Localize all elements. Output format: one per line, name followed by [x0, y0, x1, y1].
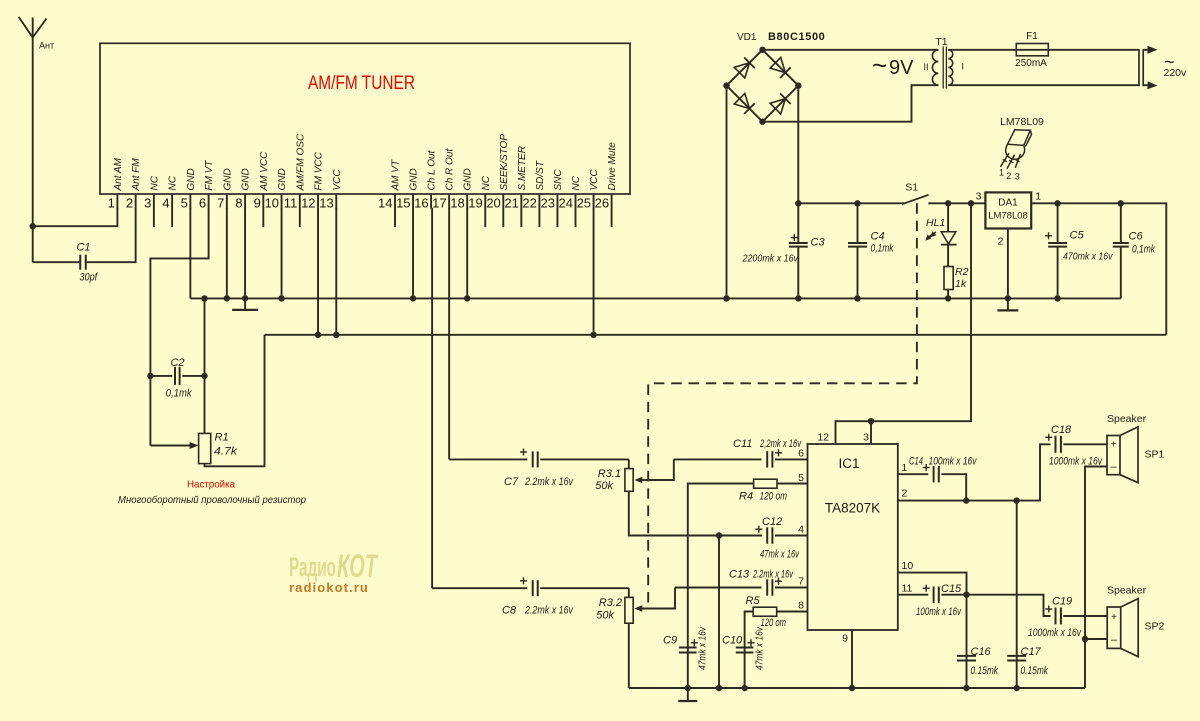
tuner pin 16 (Ch L Out) — [414, 149, 437, 210]
tuner block AM/FM TUNER — [100, 43, 630, 194]
svg-text:10: 10 — [902, 560, 914, 572]
junction R1 top col/gnd bus — [201, 295, 207, 301]
wire pin10 jog — [898, 573, 967, 595]
svg-text:R2: R2 — [955, 266, 969, 278]
junction pin13/vcc — [333, 332, 339, 338]
svg-text:IC1: IC1 — [838, 456, 859, 471]
svg-text:+: + — [1111, 612, 1117, 623]
svg-text:+: + — [1111, 440, 1117, 451]
svg-text:10: 10 — [265, 196, 279, 211]
svg-text:HL1: HL1 — [926, 217, 945, 229]
svg-text:FM VT: FM VT — [204, 160, 215, 191]
junction C3/gnd bus — [795, 295, 801, 301]
capacitor C9 47mk — [663, 626, 709, 688]
svg-text:0.15mk: 0.15mk — [1021, 665, 1049, 677]
svg-text:C13: C13 — [729, 569, 750, 581]
wire C7 to R3.1 top — [628, 459, 630, 468]
svg-text:19: 19 — [468, 196, 482, 211]
svg-text:50k: 50k — [596, 610, 614, 622]
junction pin12/vcc — [315, 332, 321, 338]
svg-text:6: 6 — [199, 196, 206, 211]
tuner pin 21 (S.METER) — [504, 146, 527, 227]
svg-text:S.METER: S.METER — [517, 146, 528, 190]
junction C17/gnd — [1014, 685, 1020, 691]
ground under pin8 — [232, 298, 258, 310]
capacitor C11 2,2mk — [733, 438, 808, 468]
svg-text:КОТ: КОТ — [337, 548, 379, 584]
svg-text:0,1mk: 0,1mk — [1132, 244, 1155, 256]
switch S1 — [902, 181, 948, 204]
svg-text:2: 2 — [1006, 171, 1011, 181]
svg-text:250mA: 250mA — [1015, 58, 1047, 69]
svg-text:1000mk x 16v: 1000mk x 16v — [1028, 627, 1082, 639]
svg-text:LM78L08: LM78L08 — [988, 211, 1028, 222]
svg-text:Ch R Out: Ch R Out — [445, 148, 456, 191]
svg-text:100mk x 16v: 100mk x 16v — [929, 456, 978, 468]
svg-text:Ch L Out: Ch L Out — [427, 149, 438, 190]
wire SP2 minus — [1085, 638, 1107, 640]
svg-text:4: 4 — [798, 524, 804, 536]
wire pin5 GND to bus — [189, 208, 191, 298]
resistor R4 120om — [688, 479, 808, 643]
tuner pin 3 (NC) — [144, 175, 160, 227]
capacitor C13 2.2mk — [729, 569, 808, 596]
junction pin7/gnd — [224, 295, 230, 301]
wire pin15 GND — [412, 208, 414, 298]
svg-text:C19: C19 — [1052, 596, 1072, 608]
junction C9/gnd — [685, 685, 691, 691]
wire wiper2 to C13 — [675, 587, 762, 589]
junction bridge minus/gnd bus — [723, 295, 729, 301]
svg-text:3: 3 — [144, 196, 151, 211]
label IC1 pin12 — [817, 432, 829, 444]
svg-text:2.2mk x 16v: 2.2mk x 16v — [524, 605, 574, 617]
junction C12 node — [716, 532, 722, 538]
wire HL1 to R2 — [947, 245, 949, 267]
svg-text:VCC: VCC — [332, 169, 343, 191]
svg-text:3: 3 — [863, 432, 869, 444]
svg-text:C8: C8 — [502, 605, 517, 617]
label IC1 pin7 — [798, 576, 804, 588]
potentiometer R3.1 50k — [595, 459, 674, 492]
resistor R1 4.7k — [150, 432, 237, 464]
tuner pin 26 (Drive Mute) — [595, 142, 618, 227]
svg-text:C3: C3 — [811, 237, 826, 249]
junction pin3 lead — [868, 418, 874, 424]
tuner pin 15 (GND) — [396, 168, 419, 210]
svg-text:50k: 50k — [595, 480, 613, 492]
svg-text:B80C1500: B80C1500 — [768, 31, 825, 43]
resistor R2 1k — [944, 266, 969, 290]
label winding II — [923, 62, 928, 72]
transformer T1 — [932, 47, 952, 89]
wire R1 bottom to +9V bus — [205, 335, 265, 467]
tuner pin 22 (SD/ST) — [522, 160, 545, 227]
svg-text:C15: C15 — [941, 583, 962, 595]
svg-text:17: 17 — [432, 196, 446, 211]
svg-text:DA1: DA1 — [998, 198, 1018, 209]
wire pin16 to C8 — [432, 587, 527, 589]
svg-text:T1: T1 — [935, 36, 947, 48]
tuner pin 23 (SNC) — [540, 169, 563, 227]
junction pin9/gnd — [849, 685, 855, 691]
svg-text:22: 22 — [522, 196, 536, 211]
svg-text:–: – — [1110, 461, 1117, 473]
wire amp ground bus — [629, 687, 1085, 689]
tuner pin 12 (FM VCC) — [301, 151, 324, 210]
svg-text:4: 4 — [162, 196, 169, 211]
watermark Радио КОТ — [289, 548, 379, 595]
label многооборотный резистор — [118, 494, 306, 506]
junction IC1 supply tap — [968, 200, 974, 206]
wire IC1 pin9 to gnd — [851, 630, 853, 688]
wire R3.2 bottom to gnd bus — [628, 623, 630, 688]
svg-text:470mk x 16v: 470mk x 16v — [1063, 251, 1113, 263]
wire pin7 GND — [226, 208, 228, 298]
svg-text:15: 15 — [396, 196, 410, 211]
label B80C1500 — [768, 31, 825, 43]
label IC1 pin4 — [798, 524, 804, 536]
junction C5 top — [1054, 200, 1060, 206]
svg-text:Ant AM: Ant AM — [113, 157, 124, 191]
wire T1 secondary top to plug — [948, 49, 1139, 51]
capacitor C8 2.2mk — [502, 577, 629, 616]
regulator DA1 LM78L08 — [976, 191, 1042, 229]
junction C6 top — [1118, 200, 1124, 206]
capacitor C2 — [147, 357, 204, 446]
tuner pin 10 (GND) — [265, 168, 288, 210]
svg-text:R5: R5 — [746, 595, 761, 607]
label ~9V — [872, 50, 914, 80]
svg-text:21: 21 — [504, 196, 518, 211]
svg-text:12: 12 — [301, 196, 315, 211]
op-amp IC1 TA8207K — [808, 444, 898, 630]
label IC1 pin1 — [902, 462, 908, 474]
wire supply to IC1 pins 12,3 — [836, 203, 972, 444]
svg-text:C2: C2 — [170, 357, 184, 369]
svg-text:20: 20 — [486, 196, 500, 211]
svg-text:47mk x 16v: 47mk x 16v — [760, 549, 800, 561]
wire C8 to R3.2 top — [628, 588, 630, 597]
wire output2 to C19 — [967, 595, 1051, 616]
mains plug 220v — [1139, 46, 1158, 90]
svg-text:C14: C14 — [909, 456, 923, 468]
svg-text:7: 7 — [217, 196, 224, 211]
svg-text:11: 11 — [902, 583, 913, 595]
tuner pin 13 (VCC) — [319, 169, 342, 211]
svg-text:18: 18 — [450, 196, 464, 211]
label IC1 pin2 — [902, 488, 908, 500]
svg-text:9: 9 — [254, 196, 261, 211]
wire pin6 FM VT — [150, 208, 208, 373]
junction SP2-/SP1- column — [1082, 636, 1088, 642]
capacitor C6 0,1mk — [1113, 203, 1156, 298]
svg-text:Speaker: Speaker — [1107, 585, 1147, 597]
svg-text:SNC: SNC — [553, 169, 564, 191]
svg-text:GND: GND — [463, 168, 474, 190]
svg-text:Настройка: Настройка — [187, 479, 235, 491]
junction pin8/gnd — [242, 295, 248, 301]
label IC1 pin3 — [863, 432, 869, 444]
svg-text:VD1: VD1 — [737, 32, 757, 43]
capacitor C12 47mk — [719, 516, 808, 561]
junction C10/gnd — [741, 685, 747, 691]
wire pin2 down to C1 — [87, 208, 136, 262]
wire C12 node down to gnd — [718, 536, 720, 689]
tuner pin 6 (FM VT) — [199, 160, 215, 211]
label IC1 pin6 — [798, 448, 804, 460]
svg-text:5: 5 — [798, 472, 804, 484]
capacitor C17 0.15mk — [1007, 501, 1048, 688]
tuner pin 20 (SEEK/STOP) — [486, 134, 509, 227]
svg-text:~: ~ — [872, 50, 887, 80]
wire SP1 minus down — [1085, 467, 1107, 689]
wire pin13 VCC — [335, 208, 337, 335]
svg-text:II: II — [923, 62, 928, 72]
wire pin10 GND — [281, 208, 283, 298]
tuner pin 25 (VCC) — [577, 169, 600, 211]
svg-text:C17: C17 — [1021, 646, 1042, 658]
mechanical link S1-R3 (dashed) — [648, 203, 917, 608]
wire pin17 Ch R Out down — [448, 208, 450, 459]
svg-text:R1: R1 — [215, 432, 229, 444]
svg-text:NC: NC — [168, 175, 179, 190]
svg-text:47mk x 16v: 47mk x 16v — [698, 626, 709, 670]
svg-text:F1: F1 — [1026, 31, 1038, 42]
svg-text:Speaker: Speaker — [1107, 413, 1147, 425]
junction C4/gnd bus — [854, 295, 860, 301]
svg-text:LM78L09: LM78L09 — [1000, 116, 1044, 128]
svg-text:8: 8 — [798, 600, 804, 612]
svg-text:Радио: Радио — [289, 552, 336, 582]
junction pin15/gnd — [410, 295, 416, 301]
svg-text:4.7k: 4.7k — [214, 446, 238, 458]
wire pin2 output — [898, 444, 1051, 500]
tuner pin 7 (GND) — [217, 168, 233, 210]
capacitor C3 2200mk — [742, 203, 826, 298]
tuner pin 8 (GND) — [235, 168, 251, 210]
capacitor C5 470mk — [1045, 203, 1113, 298]
svg-text:1: 1 — [108, 196, 115, 211]
wire C4 to switch S1 — [858, 202, 905, 204]
svg-text:C10: C10 — [722, 635, 743, 647]
ground under DA1 — [997, 298, 1018, 310]
svg-text:GND: GND — [277, 168, 288, 190]
svg-text:13: 13 — [319, 196, 333, 211]
svg-text:2: 2 — [126, 196, 133, 211]
resistor R5 120om — [745, 595, 808, 644]
junction C4 top — [854, 200, 860, 206]
svg-text:GND: GND — [186, 168, 197, 190]
junction R2/gnd bus — [945, 295, 951, 301]
label IC1 pin5 — [798, 472, 804, 484]
svg-text:0.15mk: 0.15mk — [971, 665, 999, 677]
svg-text:C16: C16 — [971, 646, 992, 658]
svg-text:Ант: Ант — [39, 41, 54, 51]
svg-text:0,1mk: 0,1mk — [166, 388, 192, 400]
junction DA1 gnd/bus — [1005, 295, 1011, 301]
svg-text:Многооборотный проволочный рез: Многооборотный проволочный резистор — [118, 494, 306, 506]
label Настройка — [187, 479, 235, 491]
svg-text:AM VT: AM VT — [391, 159, 402, 191]
svg-text:C1: C1 — [76, 242, 90, 254]
svg-text:S1: S1 — [905, 181, 918, 193]
junction pin10/gnd — [278, 295, 284, 301]
wire wiper to C11 — [674, 458, 762, 460]
junction pin18/gnd — [464, 295, 470, 301]
wire DA1 out to C5 C6 — [1031, 203, 1166, 334]
label IC1 pin8 — [798, 600, 804, 612]
svg-text:8: 8 — [235, 196, 242, 211]
svg-text:GND: GND — [241, 168, 252, 190]
svg-text:9: 9 — [842, 633, 848, 645]
capacitor C19 1000mk — [1028, 596, 1107, 640]
svg-text:23: 23 — [540, 196, 554, 211]
junction HL1 top — [945, 200, 951, 206]
svg-text:9V: 9V — [889, 57, 914, 79]
wire bridge minus down to ground bus — [726, 86, 728, 299]
svg-text:47mk x 16v: 47mk x 16v — [755, 626, 766, 670]
svg-text:R4: R4 — [739, 491, 753, 503]
svg-text:C4: C4 — [871, 230, 885, 242]
tuner pin 4 (NC) — [162, 175, 178, 227]
svg-text:2,2mk x 16v: 2,2mk x 16v — [759, 438, 802, 450]
svg-text:12: 12 — [817, 432, 829, 444]
svg-text:SP2: SP2 — [1145, 621, 1165, 633]
svg-text:C5: C5 — [1070, 230, 1085, 242]
label IC1 pin10 — [902, 560, 914, 572]
label VD1 — [737, 32, 757, 43]
junction C14/pin2 wire — [963, 497, 969, 503]
svg-text:3: 3 — [1015, 172, 1020, 182]
svg-text:C7: C7 — [504, 476, 519, 488]
tuner pin 14 (AM VT) — [378, 159, 401, 227]
capacitor C15 100mk — [916, 583, 967, 618]
svg-text:C12: C12 — [762, 516, 782, 528]
svg-text:2: 2 — [902, 488, 908, 500]
wire pin18 GND — [466, 208, 468, 298]
svg-text:2200mk x 16v: 2200mk x 16v — [742, 252, 799, 264]
wire pin25 VCC — [593, 208, 595, 335]
svg-text:2.2mk x 16v: 2.2mk x 16v — [752, 569, 794, 581]
wire bridge plus down to C3 node — [797, 86, 799, 204]
svg-text:AM/FM OSC: AM/FM OSC — [295, 133, 306, 191]
svg-text:SP1: SP1 — [1145, 449, 1165, 461]
capacitor C1 — [33, 242, 98, 284]
svg-text:C11: C11 — [733, 438, 752, 450]
tuner pin 17 (Ch R Out) — [432, 148, 455, 211]
svg-text:1: 1 — [999, 168, 1004, 178]
svg-text:Ant FM: Ant FM — [131, 158, 142, 192]
tuner pin 18 (GND) — [450, 168, 473, 210]
label IC1 pin11 — [902, 583, 913, 595]
svg-text:–: – — [1111, 634, 1118, 646]
svg-text:25: 25 — [577, 196, 591, 211]
LED HL1 — [923, 203, 956, 244]
capacitor C7 2.2mk — [504, 449, 629, 489]
tuner pin 24 (NC) — [559, 175, 582, 227]
svg-text:26: 26 — [595, 196, 609, 211]
svg-text:NC: NC — [571, 175, 582, 190]
wire C3 node to C4 node — [798, 202, 857, 204]
wire pin12 FM VCC — [317, 208, 319, 335]
wire pin16 Ch L Out down — [431, 208, 433, 588]
tuner pin 2 (Ant FM) — [126, 158, 142, 211]
wire pin1 to C14 — [898, 473, 928, 475]
svg-text:3: 3 — [976, 191, 982, 203]
speaker SP2 — [1107, 585, 1165, 657]
ground under C9 — [678, 688, 697, 701]
svg-text:R3.1: R3.1 — [598, 468, 621, 480]
svg-text:2: 2 — [998, 236, 1004, 248]
svg-text:30pf: 30pf — [80, 272, 98, 284]
svg-text:2.2mk x 16v: 2.2mk x 16v — [524, 476, 574, 488]
regulator package drawing LM78L09 — [999, 116, 1044, 182]
wire pin1 to antenna — [33, 208, 118, 226]
svg-text:5: 5 — [181, 196, 188, 211]
svg-text:C18: C18 — [1051, 424, 1072, 436]
svg-text:SD/ST: SD/ST — [535, 160, 546, 190]
antenna Ант — [19, 17, 54, 262]
svg-text:1: 1 — [1035, 191, 1041, 203]
wire IC1 pin3 lead — [870, 421, 872, 444]
svg-text:SEEK/STOP: SEEK/STOP — [499, 134, 510, 191]
svg-text:24: 24 — [559, 196, 573, 211]
capacitor C16 0.15mk — [957, 595, 998, 688]
svg-text:AM VCC: AM VCC — [259, 151, 270, 192]
wire pin8 GND — [244, 208, 246, 298]
svg-text:C6: C6 — [1129, 231, 1144, 243]
svg-text:0,1mk: 0,1mk — [871, 242, 894, 254]
svg-text:11: 11 — [284, 196, 298, 211]
tuner pin 9 (AM VCC) — [254, 151, 270, 227]
svg-text:TA8207K: TA8207K — [825, 501, 880, 516]
capacitor C10 47mk — [722, 626, 766, 688]
wire +9V bus — [265, 334, 1167, 336]
junction bridge+/C3 — [795, 200, 801, 206]
svg-text:AM/FM TUNER: AM/FM TUNER — [308, 72, 415, 94]
svg-text:I: I — [962, 62, 965, 72]
tuner pin 11 (AM/FM OSC) — [284, 133, 307, 227]
junction C12col/gnd — [716, 685, 722, 691]
speaker SP1 — [1107, 413, 1165, 483]
svg-text:Drive Mute: Drive Mute — [607, 142, 618, 191]
capacitor C4 0,1mk — [848, 203, 894, 298]
wire pin17 to C7 — [449, 458, 527, 460]
wire S1 to DA1 pin3 — [948, 202, 985, 204]
svg-text:14: 14 — [378, 196, 392, 211]
label IC1 pin9 — [842, 633, 848, 645]
label ~220v — [1164, 52, 1188, 79]
junction C2 right/R1 column — [201, 373, 207, 379]
wire pin11 to C15 — [898, 594, 928, 596]
svg-text:7: 7 — [798, 576, 804, 588]
junction C17/pin2 wire — [1014, 497, 1020, 503]
tuner pin 1 (Ant AM) — [108, 157, 124, 210]
fuse F1 250mA — [1015, 31, 1048, 69]
bridge rectifier VD1 B80C1500 — [723, 47, 801, 125]
capacitor C14 100mk — [909, 456, 978, 501]
tuner pin 5 (GND) — [181, 168, 197, 210]
junction pins10-11 node — [963, 592, 969, 598]
wire R3.1 bottom to C12 node — [629, 491, 719, 535]
svg-text:GND: GND — [409, 168, 420, 190]
svg-text:NC: NC — [149, 175, 160, 190]
potentiometer R3.2 50k — [596, 588, 675, 624]
svg-text:1: 1 — [902, 462, 908, 474]
junction antenna/pin1 — [30, 223, 36, 229]
wire bridge top to transformer — [763, 49, 934, 51]
